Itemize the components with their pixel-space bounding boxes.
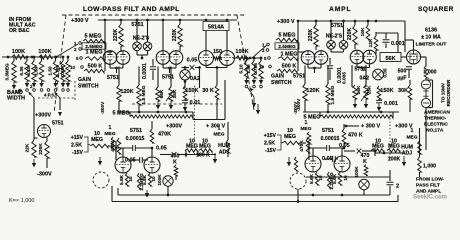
- wire V6 cathode rail: [307, 64, 309, 68]
- svg-text:10: 10: [318, 175, 323, 181]
- svg-text:MEG: MEG: [301, 126, 312, 132]
- svg-text:-15V: -15V: [265, 148, 276, 154]
- svg-text:+300 V: +300 V: [395, 124, 413, 130]
- svg-text:470K: 470K: [158, 132, 171, 138]
- svg-text:GAIN: GAIN: [271, 74, 284, 80]
- resistor 1.8 MEG stage2: [326, 84, 330, 104]
- svg-text:FROM LOW-: FROM LOW-: [416, 177, 445, 183]
- tube V1b 5751: [116, 51, 130, 65]
- svg-text:NE-2'S: NE-2'S: [326, 34, 343, 40]
- wire wiper drops: [33, 98, 35, 112]
- svg-text:220K: 220K: [38, 143, 44, 155]
- tube V9b lower 2: [334, 156, 350, 172]
- wire feedback ends stage2: [319, 112, 321, 117]
- svg-text:2: 2: [74, 47, 77, 52]
- svg-text:5: 5: [264, 56, 267, 61]
- thermocouple heater junction a: [421, 80, 430, 89]
- wire lower amp left rail: [115, 141, 117, 160]
- svg-text:-15V: -15V: [72, 150, 83, 156]
- wire input stage2: [233, 57, 262, 59]
- svg-text:5: 5: [76, 56, 79, 61]
- tube V4 cathode follower: [38, 125, 51, 138]
- svg-text:0.05: 0.05: [156, 146, 167, 152]
- svg-text:6.36: 6.36: [19, 66, 24, 76]
- svg-text:100K: 100K: [12, 49, 25, 55]
- switch contacts gain switch stage1: [79, 42, 82, 45]
- resistor 100K input no.1: [12, 55, 25, 59]
- svg-text:100K: 100K: [388, 157, 401, 163]
- svg-text:LOW-PASS FILT AND AMPL: LOW-PASS FILT AND AMPL: [83, 6, 180, 13]
- svg-text:0.795: 0.795: [253, 63, 258, 75]
- svg-text:+15V: +15V: [264, 133, 277, 139]
- resistor 0.397 bandwidth bank: [67, 57, 69, 61]
- svg-text:150: 150: [213, 49, 222, 55]
- svg-text:MEG: MEG: [105, 131, 116, 137]
- neon lamp NE-2 no.2: [147, 20, 149, 42]
- ground lower amp left: [99, 157, 101, 164]
- wire V1 cathode rail: [109, 64, 111, 68]
- tube V3a 5814A: [205, 31, 207, 51]
- ground lower amp 2: [288, 157, 290, 165]
- ground stage1 mid b: [170, 101, 172, 108]
- tube V9a lower 2: [305, 156, 321, 172]
- svg-text:AMPL: AMPL: [329, 6, 351, 13]
- svg-text:150K: 150K: [185, 88, 198, 94]
- svg-text:-300V: -300V: [37, 172, 52, 178]
- dashed circle shield stage2: [290, 173, 306, 189]
- svg-text:1: 1: [218, 126, 221, 132]
- svg-text:NO,17A: NO,17A: [426, 128, 444, 134]
- resistor 220K stage2b / squarer: [353, 25, 357, 44]
- wire stubs tube row down stage2: [304, 66, 306, 85]
- svg-text:SWITCH: SWITCH: [78, 83, 99, 89]
- svg-text:5751: 5751: [293, 74, 305, 80]
- svg-text:0A2: 0A2: [190, 76, 200, 82]
- svg-text:2: 2: [396, 184, 399, 190]
- svg-text:OR B&C: OR B&C: [9, 28, 30, 34]
- switch coupling dashed: [38, 97, 75, 99]
- neon lamp NE-2 no.1: [136, 20, 138, 42]
- resistor grid stage2 lower: [294, 157, 297, 171]
- dashed shield line stage2: [389, 112, 391, 158]
- ground lower amp center: [146, 190, 148, 196]
- svg-text:± 10 MA: ± 10 MA: [421, 35, 441, 41]
- wire rail above feedback stage1: [119, 111, 193, 113]
- svg-text:1: 1: [305, 120, 308, 126]
- svg-text:10: 10: [128, 176, 133, 182]
- svg-text:500 K: 500 K: [88, 64, 103, 70]
- svg-text:SeekIC.com: SeekIC.com: [413, 195, 447, 201]
- capacitor 2 output: [306, 176, 390, 178]
- resistor 220K plate stage1a: [119, 24, 123, 46]
- resistor 1,000 heater b: [419, 135, 421, 157]
- wire rail above feedback stage2: [303, 111, 399, 113]
- svg-text:1.59: 1.59: [34, 66, 39, 76]
- wire bottom long a: [118, 194, 390, 196]
- svg-text:1 MEG: 1 MEG: [280, 52, 297, 58]
- svg-text:+ 300 V: + 300 V: [361, 124, 380, 130]
- dashed enclosure left slant: [54, 15, 66, 113]
- svg-text:0.00015: 0.00015: [321, 136, 340, 142]
- svg-text:-300V: -300V: [100, 101, 105, 114]
- wire thermocouple output: [432, 80, 434, 108]
- svg-text:25K: 25K: [367, 85, 373, 94]
- wire hum rail stage2: [374, 148, 376, 156]
- resistor 2.5MEG boxed 2: [275, 43, 299, 49]
- tube V6b 5751 stage2: [314, 51, 328, 65]
- capacitor 0.001 squarer: [376, 32, 398, 34]
- svg-text:0.0001: 0.0001: [142, 63, 148, 79]
- wire lower amp left rail 2: [308, 144, 310, 160]
- svg-text:1: 1: [109, 125, 112, 131]
- svg-text:AMERICAN: AMERICAN: [424, 110, 450, 116]
- thermocouple heater junction b: [421, 98, 430, 107]
- regulator 0A2: [184, 68, 186, 70]
- resistor 12K squarer: [374, 36, 378, 50]
- svg-text:5.6K: 5.6K: [332, 173, 337, 184]
- svg-text:500 K: 500 K: [282, 64, 297, 70]
- switch wiper gain stage1: [56, 44, 78, 57]
- svg-text:220K: 220K: [308, 29, 314, 42]
- svg-text:+15V: +15V: [71, 135, 84, 141]
- wire squarer plate: [404, 21, 406, 52]
- potentiometer 25K stage2: [364, 85, 368, 99]
- resistor 120K stage1: [117, 85, 121, 101]
- wire input line: [2, 56, 60, 58]
- svg-text:5 MEG: 5 MEG: [112, 111, 129, 117]
- svg-text:10: 10: [259, 65, 264, 70]
- resistor 220K lower: [46, 138, 48, 142]
- capacitor 0.001 stage2 lower: [378, 99, 380, 100]
- ground stage2 mid a: [354, 99, 356, 107]
- wire stubs tube row down stage1: [118, 67, 120, 86]
- svg-text:10K: 10K: [360, 27, 366, 36]
- switch contact extra b: [47, 89, 50, 92]
- wire feedback ends stage1: [129, 112, 131, 117]
- svg-text:K: K: [363, 159, 367, 165]
- svg-text:100 K: 100 K: [196, 153, 210, 159]
- resistor 2.5MEG boxed: [82, 43, 106, 49]
- resistor 1.59 bandwidth bank: [55, 57, 57, 61]
- switch wiper bandwidth b: [55, 92, 61, 98]
- svg-text:2.5MEG: 2.5MEG: [278, 44, 296, 50]
- svg-text:2.5K: 2.5K: [71, 143, 82, 149]
- switch contact extra a: [19, 89, 22, 92]
- svg-text:MEG: MEG: [214, 132, 225, 138]
- resistor 5.6K cathode a: [125, 173, 128, 186]
- tube V7a 5751 stage2: [350, 50, 364, 64]
- svg-text:µµF: µµF: [397, 76, 406, 82]
- svg-text:0.397: 0.397: [60, 65, 65, 77]
- tube V7b 5751 stage2: [363, 50, 377, 64]
- svg-text:THERMO-: THERMO-: [424, 116, 447, 122]
- svg-text:3.3MEG: 3.3MEG: [5, 63, 10, 81]
- switch contacts gain switch stage2: [267, 43, 270, 46]
- label 5814A boxed: [203, 22, 229, 31]
- svg-text:WIDTH: WIDTH: [7, 96, 25, 102]
- ground stage1 mid a: [157, 101, 159, 108]
- ground bandwidth stage2: [253, 97, 255, 106]
- wire bottom long b: [112, 201, 398, 203]
- svg-text:RECORDER: RECORDER: [446, 79, 451, 106]
- svg-text:MEG: MEG: [284, 134, 296, 140]
- svg-text:+300 V: +300 V: [277, 19, 295, 25]
- resistor 100K input no.2: [39, 55, 52, 59]
- wire gain chain right bus 2: [297, 41, 299, 71]
- wire +300V bus stage1: [98, 19, 237, 21]
- resistor 6.36 bandwidth bank: [26, 57, 28, 61]
- svg-text:+300V: +300V: [35, 113, 51, 119]
- wire +300V bus stage2: [299, 20, 405, 22]
- svg-text:470K: 470K: [110, 140, 116, 152]
- resistor 470K rotated 2: [306, 138, 310, 153]
- capacitor 0.0001 stage1: [152, 59, 154, 66]
- svg-text:K=× 1,000: K=× 1,000: [9, 198, 34, 204]
- resistor 3.3MEG: [13, 57, 15, 61]
- svg-text:5.6K: 5.6K: [142, 174, 147, 185]
- svg-text:220K: 220K: [347, 28, 353, 41]
- svg-text:5.18: 5.18: [239, 64, 244, 74]
- svg-text:220K: 220K: [113, 29, 119, 42]
- resistor 1.8 MEG stage1: [137, 85, 141, 105]
- svg-text:-300V: -300V: [296, 98, 301, 111]
- svg-text:5.18: 5.18: [26, 66, 31, 76]
- svg-text:470 K: 470 K: [348, 133, 363, 139]
- svg-text:10: 10: [343, 175, 348, 181]
- resistor 220K plate stage1b: [178, 24, 182, 46]
- resistor 5.18 bandwidth bank2: [246, 58, 248, 61]
- svg-text:30 K: 30 K: [202, 88, 214, 94]
- svg-text:1.59: 1.59: [48, 66, 53, 76]
- svg-text:PASS FILT: PASS FILT: [416, 183, 440, 189]
- svg-text:100K: 100K: [354, 166, 359, 178]
- svg-text:10: 10: [70, 65, 75, 70]
- svg-text:5751: 5751: [107, 75, 119, 81]
- wire dashed circle drop 2: [297, 189, 299, 202]
- wire 5814A cathode rail: [205, 66, 207, 68]
- svg-text:TO 10MV: TO 10MV: [441, 82, 446, 103]
- potentiometer 25K stage1: [169, 87, 173, 101]
- svg-text:1.8 MEG: 1.8 MEG: [141, 85, 147, 104]
- svg-text:5 MEG: 5 MEG: [84, 34, 101, 40]
- svg-text:0.01: 0.01: [190, 100, 201, 106]
- svg-text:5751: 5751: [331, 23, 343, 29]
- svg-text:25K: 25K: [172, 89, 178, 98]
- svg-text:+300V: +300V: [166, 124, 182, 130]
- tube V5b lower: [144, 157, 160, 173]
- dashed enclosure right slant: [237, 15, 254, 110]
- resistor 5.6K cathode 2b: [338, 172, 341, 185]
- dashed enclosure low-pass box top: [62, 14, 245, 16]
- resistor 5.6K cathode b: [148, 173, 151, 186]
- resistor 1.59 bandwidth bank2: [253, 58, 255, 61]
- resistor 0.795 bandwidth bank: [62, 57, 64, 61]
- resistor 0.795 bandwidth bank2: [260, 58, 262, 61]
- tube V3b 5814A: [226, 31, 228, 51]
- resistor 2.2MEG tail: [137, 173, 140, 189]
- svg-text:56K: 56K: [159, 89, 165, 98]
- dashed circle shield stage1: [93, 172, 109, 188]
- svg-text:+300 V: +300 V: [71, 18, 89, 24]
- svg-text:GAIN: GAIN: [78, 77, 91, 83]
- resistor 22K: [33, 112, 35, 140]
- svg-text:5751: 5751: [130, 128, 142, 134]
- svg-text:5.6K: 5.6K: [119, 174, 124, 185]
- gain switch coupling dashed stage1: [74, 81, 76, 100]
- svg-text:+ 300 V: + 300 V: [206, 124, 225, 130]
- resistor 56K boxed squarer: [380, 53, 401, 62]
- svg-text:SQUARER: SQUARER: [418, 6, 454, 13]
- svg-text:0.005: 0.005: [342, 72, 348, 84]
- svg-text:0.00015: 0.00015: [126, 136, 145, 142]
- dashed enclosure bottom: [132, 103, 222, 105]
- thermocouple junction bars: [425, 89, 427, 98]
- svg-text:1.59: 1.59: [246, 64, 251, 74]
- resistor 100K interstage: [236, 56, 248, 60]
- svg-text:LIMITER OUT: LIMITER OUT: [416, 42, 447, 48]
- tube V6a 5751 stage2: [301, 51, 315, 65]
- svg-text:1,000: 1,000: [423, 164, 436, 170]
- resistor 5.18 bandwidth bank: [33, 57, 35, 61]
- wire V7 cathode rail: [356, 64, 358, 68]
- svg-text:500: 500: [398, 69, 407, 75]
- svg-text:470K: 470K: [299, 140, 305, 152]
- svg-text:0.001: 0.001: [384, 101, 398, 107]
- ground stage2 left: [257, 104, 259, 113]
- svg-text:120K: 120K: [120, 89, 133, 95]
- svg-text:K: K: [173, 160, 177, 166]
- svg-text:5751: 5751: [322, 128, 334, 134]
- switch wiper bandwidth stage2: [248, 88, 254, 97]
- svg-text:56K: 56K: [356, 85, 362, 94]
- resistor 56K stage1: [156, 87, 160, 101]
- svg-text:ADJ: ADJ: [402, 151, 412, 157]
- svg-text:0.05: 0.05: [383, 68, 388, 78]
- svg-text:150K: 150K: [380, 88, 393, 94]
- svg-text:5814A: 5814A: [208, 25, 224, 31]
- wire hum rail stage1: [185, 151, 187, 158]
- svg-text:100K: 100K: [38, 49, 51, 55]
- svg-text:0A2: 0A2: [360, 76, 370, 82]
- resistor 56K stage2: [353, 85, 357, 99]
- switch wiper gain stage2: [252, 45, 267, 58]
- svg-text:220K: 220K: [172, 29, 178, 42]
- svg-text:MEG: MEG: [407, 135, 418, 141]
- ground stage2 mid b: [365, 99, 367, 107]
- svg-text:30K: 30K: [398, 88, 408, 94]
- svg-text:10: 10: [151, 176, 156, 182]
- tube V10 6136 squarer: [407, 50, 421, 64]
- switch wiper bandwidth a: [29, 92, 35, 98]
- capacitor 0.0001 stage2: [329, 58, 331, 65]
- svg-text:100K: 100K: [235, 49, 248, 55]
- wire V2 cathode rail: [162, 64, 164, 68]
- svg-text:MEG: MEG: [91, 137, 103, 143]
- neon lamp NE-2 stage2 no.1: [330, 21, 332, 41]
- resistor 10K squarer: [366, 25, 370, 40]
- resistor 470K lower rotated: [117, 138, 121, 154]
- svg-text:56K: 56K: [385, 56, 395, 62]
- svg-text:6136: 6136: [425, 28, 437, 34]
- wire gain chain right bus: [104, 41, 106, 71]
- wire right column stage1: [224, 80, 226, 120]
- neon lamp NE-2 stage2 no.2: [343, 21, 345, 41]
- resistor 5.6K cathode 2a: [315, 172, 318, 185]
- svg-text:4 P.S.: 4 P.S.: [44, 93, 55, 98]
- svg-text:ELECTRIC: ELECTRIC: [424, 122, 449, 128]
- resistor 220K stage2a: [314, 25, 318, 46]
- tube V2b 5751: [169, 51, 183, 65]
- svg-text:1 MEG: 1 MEG: [85, 50, 102, 56]
- svg-text:2: 2: [30, 84, 33, 89]
- svg-text:22K: 22K: [25, 143, 31, 152]
- tube V5a lower: [115, 157, 131, 173]
- resistor 2.2MEG tail 2: [327, 172, 330, 188]
- svg-text:120K: 120K: [306, 88, 319, 94]
- svg-text:0.05: 0.05: [339, 143, 350, 149]
- svg-text:5751: 5751: [162, 75, 174, 81]
- svg-text:2.5K: 2.5K: [264, 141, 275, 147]
- tube V2a 5751: [156, 51, 170, 65]
- dashed shield line stage1: [194, 86, 196, 155]
- resistor 1.59 bandwidth bank: [41, 57, 43, 61]
- svg-text:SWITCH: SWITCH: [271, 80, 292, 86]
- tube V1a 5751: [103, 51, 117, 65]
- svg-text:0.05: 0.05: [187, 58, 198, 64]
- svg-text:5751: 5751: [355, 67, 367, 73]
- svg-text:12K: 12K: [368, 38, 374, 47]
- svg-text:5.6K: 5.6K: [309, 173, 314, 184]
- svg-text:5751: 5751: [52, 121, 64, 127]
- resistor 120K stage2: [303, 84, 307, 100]
- svg-text:100K: 100K: [157, 174, 162, 186]
- capacitor 0.01 stage1: [184, 99, 186, 100]
- svg-text:5 MEG: 5 MEG: [278, 33, 295, 39]
- svg-text:1.8 MEG: 1.8 MEG: [330, 85, 336, 104]
